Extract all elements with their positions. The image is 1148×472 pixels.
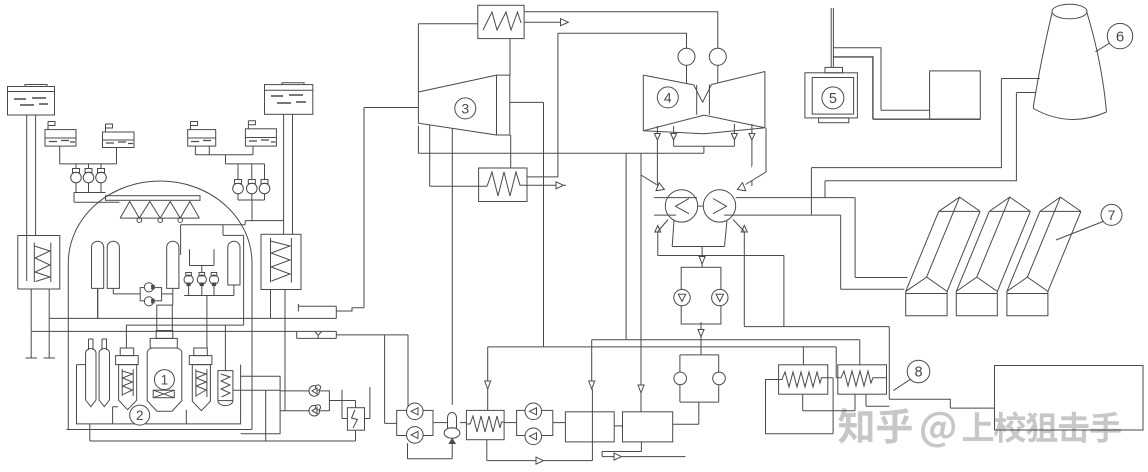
HP turbine (3) <box>418 75 509 135</box>
label 1 (reactor) <box>154 370 174 390</box>
wire: FW heater to pump set 2 <box>504 422 516 424</box>
pressurizer P4 (right) <box>228 241 240 295</box>
spray header bar <box>106 196 201 223</box>
wire: pump1 recirculation loop <box>408 443 453 458</box>
svg-text:3: 3 <box>461 100 469 116</box>
label 8 (component cooling) <box>893 360 929 390</box>
wire: feedwater drop to condensate pumps <box>385 335 408 424</box>
heat exchanger E-right <box>261 234 301 410</box>
condenser A <box>654 190 698 222</box>
pressurizer P3 <box>167 241 179 305</box>
inner valve manifold <box>190 249 215 272</box>
wire: HX8a/8b bottom link <box>803 394 890 411</box>
wire: MSR1 to LP stop valve (top line) <box>524 12 718 49</box>
wire: cooling water to spray ponds <box>841 198 908 290</box>
wire: containment bottom drain <box>90 424 355 441</box>
condensate pump set 2 <box>517 403 553 445</box>
condensate pump set 1 <box>397 403 433 443</box>
service water box (big right box) <box>995 366 1144 431</box>
cooling tower (6) <box>1033 4 1106 119</box>
wire: pump discharge to header <box>698 322 704 355</box>
wire: condensate header y340 <box>592 340 860 385</box>
wire: spray supply manifold into dome <box>74 193 120 203</box>
feedwater pipe FW1 (with check valve tick) <box>297 331 408 338</box>
wire: HX8a loop piping <box>766 378 834 434</box>
wire: T2 pipes down to right HX <box>284 114 293 234</box>
valve V7 (inside dome) <box>184 273 193 296</box>
main steam pipe MS1 (flanged stub) <box>298 304 364 318</box>
wire: drain line to containment (y319) <box>49 289 336 318</box>
wire: HP exhaust to MSR2 <box>510 102 544 347</box>
pressurizer P1 <box>92 241 104 319</box>
accumulator tank D <box>245 121 276 146</box>
valve V4 <box>233 180 244 201</box>
label 2 (primary pumps) <box>130 405 150 425</box>
pressurizer P2 <box>107 241 140 294</box>
label 7 (spray ponds) <box>1056 204 1122 240</box>
transformer box <box>930 71 981 119</box>
steam generator SG2 <box>189 348 212 411</box>
wire: drain line y332 to SG feed pipe <box>32 330 337 332</box>
reactor pit <box>77 365 241 424</box>
watermark 知乎 @上校狙击手 <box>838 408 1121 448</box>
wire: tanks C,D headers to right valves <box>195 146 264 179</box>
relief valve station (cross pumps) <box>140 283 173 306</box>
condenser B <box>698 190 855 222</box>
label 6 (cooling tower) <box>1095 23 1132 51</box>
svg-text:5: 5 <box>829 91 837 107</box>
wire: pump set 2 to box A <box>553 422 566 424</box>
closed cooling HX 8b <box>838 365 887 394</box>
LP stop valve A <box>678 48 695 84</box>
containment dome <box>67 181 253 430</box>
canned pump vessel CP1 <box>86 339 96 407</box>
RHR vessel (right, with coil) <box>218 325 233 406</box>
circulating water arrows at condenser <box>655 220 748 256</box>
spray pond shed S2 <box>956 197 1030 316</box>
wire: HP extraction line y153 <box>418 126 704 153</box>
treatment box B <box>623 412 673 442</box>
wire: condenser hotwell manifold <box>672 220 727 267</box>
label 4 (LP turbine) <box>657 87 678 108</box>
wire: flask to FW heater <box>460 422 467 424</box>
wire: right valve group drop <box>238 200 265 221</box>
moisture separator reheater MSR2 (bottom) <box>430 125 527 202</box>
valve V9 (inside dome) <box>209 273 218 296</box>
valve V5 <box>247 180 258 201</box>
wire: FW heater drain to sump line <box>487 440 593 464</box>
wire: MSR2 right to LP valve riser <box>527 33 687 177</box>
wire: box A/B bottom drains with arrows <box>602 442 685 460</box>
heat exchanger E-left (containment spray cooler) <box>18 236 60 290</box>
accumulator tank B <box>103 124 135 148</box>
steam generator SG1 <box>116 348 139 410</box>
wire: inner wall line to SG left <box>126 225 243 348</box>
LP stop valve B <box>709 48 726 83</box>
canned pump vessel CP2 <box>99 339 109 407</box>
demineralizer frame (plain circles) <box>673 355 726 424</box>
wire: pump1 to flask <box>433 422 447 424</box>
svg-text:6: 6 <box>1116 29 1124 46</box>
condensate pump box CP <box>674 267 728 324</box>
wire: circ water return line <box>658 256 890 327</box>
svg-text:4: 4 <box>664 89 672 105</box>
moisture separator reheater MSR1 (top) <box>478 5 524 38</box>
reactor R (vessel) <box>147 305 182 411</box>
wire: circ water supply to tower P2 <box>825 93 1036 198</box>
wire: T1 pipes down to left HX <box>27 115 36 236</box>
wire: MSR1 vent arrow <box>524 19 568 26</box>
tank T2 (top-right water tank) <box>265 83 313 115</box>
wire: generator leads to transformer <box>833 48 929 111</box>
wire: HX8b outlet to service box <box>889 327 994 409</box>
wire: arrows into boxes A and B <box>589 381 644 412</box>
svg-text:8: 8 <box>914 365 922 381</box>
valve V3 (spray valve) <box>96 169 107 193</box>
wire: condensate feed to heater B <box>640 153 642 385</box>
letdown pump L2 <box>280 405 321 416</box>
label 3 (HP turbine) <box>455 98 476 119</box>
reactor internals (bowtie) <box>153 390 174 398</box>
aux heat exchanger (letdown cooler) <box>342 387 370 441</box>
wire: MSR1 down to HP exhaust <box>509 39 511 76</box>
tank T1 (top-left water tank) <box>8 85 55 116</box>
wire: letdown pumps to aux HX <box>320 391 356 411</box>
wire: HP inlet from MSR top <box>418 24 477 92</box>
wire: left HX drains with T-ends <box>26 289 56 358</box>
generator (5) <box>805 8 858 123</box>
feedwater heater (zigzag box) <box>466 410 504 439</box>
svg-text:7: 7 <box>1108 207 1116 223</box>
closed cooling HX 8a <box>779 365 828 394</box>
aux letdown box right of containment <box>233 376 280 441</box>
accumulator tank A <box>45 122 76 147</box>
accumulator tank C <box>188 122 216 147</box>
LP extraction arrows <box>654 124 755 186</box>
valve V2 (spray valve) <box>83 169 94 193</box>
deaerator flask <box>444 413 460 444</box>
wire: box A through-line <box>592 389 622 461</box>
wire: circ water supply to tower P1 <box>811 79 1040 216</box>
wire: inner valve bottom rail <box>184 296 234 349</box>
LP turbine (4) <box>643 72 765 134</box>
label 5 (generator) <box>822 87 844 109</box>
wire: main steam riser to HP turbine <box>364 108 418 308</box>
valve V8 (inside dome) <box>197 273 206 296</box>
svg-text:2: 2 <box>136 408 144 423</box>
wire: condenser A inlet diagonal <box>641 175 664 191</box>
wire: condenser B inlet diagonal <box>737 128 766 191</box>
wire: LP heater drain manifold <box>626 146 734 340</box>
spray pond shed S1 <box>906 197 980 316</box>
wire: dome top-right steam line <box>181 221 284 255</box>
spray pond shed S3 <box>1007 197 1081 316</box>
wire: branch down into FW heater <box>485 347 491 411</box>
wire: header branch into HX8a / HX8b <box>488 340 860 378</box>
treatment box A <box>565 412 614 442</box>
svg-text:1: 1 <box>161 372 169 387</box>
wire: MSR2 outlet arrow <box>527 182 566 189</box>
letdown pump L1 <box>280 385 321 396</box>
wire: tanks A,B headers to spray valves <box>60 146 117 168</box>
valve V1 (spray valve) <box>71 169 82 193</box>
wire: HP extraction to deaerator riser <box>451 128 453 405</box>
valve V6 <box>259 180 270 201</box>
